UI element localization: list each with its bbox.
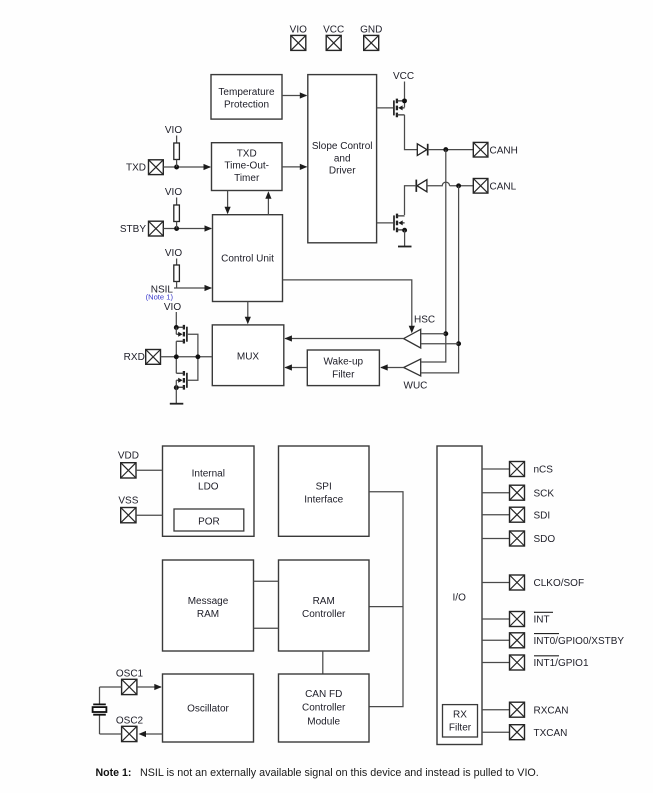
- svg-text:Oscillator: Oscillator: [187, 703, 229, 714]
- pin VDD: [118, 451, 139, 478]
- wire WUC output to Wake-up Filter: [380, 364, 403, 370]
- svg-text:INT: INT: [534, 615, 550, 626]
- wire I/O to pin INT: [482, 618, 510, 620]
- wire D2 to CANL pin (with hop): [427, 182, 473, 188]
- svg-text:CAN FD: CAN FD: [305, 689, 342, 700]
- wire Wake-up Filter to MUX: [284, 364, 307, 370]
- block Wake-up Filter: [307, 350, 379, 386]
- svg-text:Internal: Internal: [192, 468, 225, 479]
- svg-text:WUC: WUC: [404, 381, 428, 392]
- wire VSS to LDO: [136, 514, 163, 516]
- resistor VIO pull-up on TXD: [165, 125, 182, 167]
- pin GND (top supply): [360, 24, 382, 50]
- wire TXD to timer: [163, 164, 211, 170]
- svg-text:Interface: Interface: [304, 495, 343, 506]
- pin VCC (top supply): [323, 24, 344, 50]
- wire STBY to Control Unit: [163, 225, 212, 231]
- pin nCS: [510, 462, 554, 477]
- wire I/O to pin SCK: [482, 492, 510, 494]
- wire CANL node down to comparators: [421, 186, 461, 373]
- block Message RAM: [163, 560, 254, 651]
- wire TXD Time-Out-Timer to Slope Control: [282, 164, 307, 170]
- wire Slope Control to NMOS gate: [377, 222, 394, 224]
- svg-text:Controller: Controller: [302, 609, 346, 620]
- wire D1 to CANH pin: [428, 147, 474, 152]
- block RAM Controller: [279, 560, 370, 651]
- svg-text:STBY: STBY: [120, 224, 146, 235]
- pin RXCAN: [510, 702, 569, 717]
- pin OSC2: [116, 715, 144, 741]
- svg-text:Protection: Protection: [224, 100, 269, 111]
- block Temperature Protection: [211, 75, 282, 120]
- wire Slope Control to PMOS gate: [377, 107, 394, 109]
- svg-text:INT1/GPIO1: INT1/GPIO1: [534, 658, 589, 669]
- block Oscillator: [163, 674, 254, 742]
- wire I/O to pin RXCAN: [482, 709, 510, 711]
- wire inverter NMOS connections: [176, 357, 198, 388]
- resistor VIO pull-up on STBY: [165, 187, 182, 229]
- wire I/O to pin INT0-GPIO0-XSTBY: [482, 639, 510, 641]
- transistor low-side NMOS driver: [394, 214, 407, 233]
- pin SCK: [510, 485, 555, 500]
- wire NSIL to Control Unit: [174, 285, 212, 291]
- pin INT1-GPIO1: [510, 655, 589, 670]
- wire I/O to pin TXCAN: [482, 731, 510, 733]
- svg-text:SDI: SDI: [534, 510, 551, 521]
- crystal Y1: [93, 687, 107, 734]
- svg-text:NSIL is not an externally avai: NSIL is not an externally available sign…: [140, 767, 539, 779]
- svg-text:HSC: HSC: [414, 315, 435, 326]
- svg-text:Wake-up: Wake-up: [323, 356, 363, 367]
- note 1 text: [96, 767, 539, 779]
- wire Control Unit up to TXD Time-Out-Timer: [265, 191, 271, 215]
- wire I/O to pin SDO: [482, 538, 510, 540]
- wire Temperature Protection to Slope Control: [282, 92, 307, 98]
- pin SDO: [510, 531, 556, 546]
- pin SDI: [510, 507, 551, 522]
- svg-text:GND: GND: [360, 24, 382, 35]
- diode D2 from CANL: [416, 180, 427, 192]
- diode D1 to CANH: [417, 144, 427, 156]
- block MUX: [212, 325, 283, 386]
- wire Message RAM to RAM Controller (upper): [254, 580, 279, 582]
- svg-text:POR: POR: [198, 516, 220, 527]
- svg-text:RX: RX: [453, 710, 467, 721]
- pin OSC1: [116, 668, 144, 694]
- svg-text:nCS: nCS: [534, 465, 554, 476]
- wire HSC output to MUX: [284, 335, 403, 341]
- svg-text:VCC: VCC: [393, 71, 414, 82]
- svg-text:Filter: Filter: [449, 723, 472, 734]
- pin CANH: [473, 142, 518, 157]
- svg-text:TXD: TXD: [237, 149, 257, 160]
- svg-text:Timer: Timer: [234, 173, 260, 184]
- transistor inverter PMOS: [174, 325, 187, 344]
- pin TXD: [126, 160, 163, 175]
- wire crystal to OSC pins: [100, 687, 122, 734]
- block Slope Control and Driver: [308, 75, 377, 243]
- svg-text:VDD: VDD: [118, 451, 139, 462]
- svg-text:VIO: VIO: [290, 24, 307, 35]
- wire I/O to pin CLKO-SOF: [482, 582, 510, 584]
- comparator HSC: [404, 315, 436, 348]
- pin CLKO-SOF: [510, 575, 585, 590]
- wire OSC1 to Oscillator: [137, 684, 162, 690]
- svg-text:VIO: VIO: [165, 248, 182, 259]
- wire Message RAM to RAM Controller (lower): [254, 627, 279, 629]
- svg-text:CLKO/SOF: CLKO/SOF: [534, 578, 585, 589]
- svg-text:RAM: RAM: [313, 596, 335, 607]
- wire TXD Time-Out-Timer down to Control Unit: [225, 191, 231, 215]
- svg-text:Message: Message: [188, 596, 229, 607]
- wire RXD to MUX: [161, 354, 213, 359]
- svg-text:OSC1: OSC1: [116, 668, 144, 679]
- wire D2 to NMOS drain: [405, 186, 417, 215]
- svg-text:CANL: CANL: [490, 181, 517, 192]
- block Control Unit: [213, 215, 283, 302]
- pin TXCAN: [510, 725, 568, 740]
- svg-text:CANH: CANH: [490, 145, 518, 156]
- wire SPI bus to RAM Controller and CAN FD: [369, 492, 403, 707]
- svg-text:RAM: RAM: [197, 609, 219, 620]
- block SPI Interface: [279, 446, 370, 536]
- svg-text:(Note 1): (Note 1): [146, 293, 174, 302]
- block TXD Time-Out-Timer: [212, 143, 283, 191]
- svg-text:SDO: SDO: [534, 534, 556, 545]
- pin VIO (top supply): [290, 24, 307, 50]
- pin RXD: [124, 350, 161, 365]
- block CAN FD Controller Module: [279, 674, 370, 742]
- block Internal LDO: [163, 446, 255, 536]
- svg-text:SCK: SCK: [534, 488, 555, 499]
- wire I/O to pin SDI: [482, 514, 510, 516]
- wire VDD to LDO: [136, 469, 163, 471]
- pin INT0-GPIO0-XSTBY: [510, 633, 625, 648]
- wire Control Unit to HSC comparator: [283, 280, 415, 333]
- wire I/O to pin INT1-GPIO1: [482, 662, 510, 664]
- wire RAM Controller to CAN FD module: [322, 651, 324, 674]
- svg-text:VSS: VSS: [118, 496, 138, 507]
- wire inverter PMOS connections: [176, 327, 198, 357]
- pin STBY: [120, 221, 163, 236]
- svg-text:Module: Module: [307, 716, 340, 727]
- svg-text:Driver: Driver: [329, 166, 356, 177]
- block POR: [174, 509, 244, 531]
- svg-text:VIO: VIO: [165, 125, 182, 136]
- svg-text:RXD: RXD: [124, 352, 145, 363]
- svg-text:TXCAN: TXCAN: [534, 728, 568, 739]
- ground (inverter): [170, 387, 184, 403]
- wire I/O to pin nCS: [482, 468, 510, 470]
- wire PMOS source to diode D1: [405, 115, 418, 150]
- svg-text:OSC2: OSC2: [116, 715, 144, 726]
- svg-text:VIO: VIO: [164, 302, 181, 313]
- svg-text:and: and: [334, 153, 351, 164]
- svg-text:Slope Control: Slope Control: [312, 141, 373, 152]
- svg-text:Note 1:: Note 1:: [96, 767, 132, 779]
- svg-text:MUX: MUX: [237, 351, 260, 362]
- pin INT: [510, 612, 554, 627]
- pin VSS: [118, 496, 138, 523]
- comparator WUC: [404, 359, 428, 392]
- transistor inverter NMOS: [174, 371, 187, 390]
- svg-text:Control Unit: Control Unit: [221, 254, 274, 265]
- svg-text:LDO: LDO: [198, 481, 219, 492]
- wire CANH node down to comparators: [421, 150, 448, 362]
- wire Control Unit to MUX: [245, 302, 251, 325]
- wire Oscillator to OSC2: [139, 731, 163, 737]
- svg-text:VCC: VCC: [323, 24, 344, 35]
- svg-text:Temperature: Temperature: [218, 87, 275, 98]
- block RX Filter: [443, 705, 478, 737]
- svg-text:TXD: TXD: [126, 162, 146, 173]
- svg-text:VIO: VIO: [165, 187, 182, 198]
- block I/O: [437, 446, 482, 745]
- svg-text:Time-Out-: Time-Out-: [224, 161, 269, 172]
- ground (driver source): [398, 230, 412, 246]
- pin CANL: [473, 179, 516, 194]
- svg-text:Controller: Controller: [302, 703, 346, 714]
- svg-text:SPI: SPI: [316, 482, 332, 493]
- svg-text:RXCAN: RXCAN: [534, 705, 569, 716]
- node NSIL: [146, 285, 174, 302]
- svg-text:INT0/GPIO0/XSTBY: INT0/GPIO0/XSTBY: [534, 636, 625, 647]
- node VIO above RXD inverter: [164, 302, 181, 327]
- svg-text:Filter: Filter: [332, 370, 355, 381]
- transistor high-side PMOS driver: [394, 98, 407, 117]
- resistor VIO pull-up on NSIL: [165, 248, 182, 288]
- wire HSC inputs: [421, 334, 458, 344]
- node VCC (driver supply): [393, 71, 414, 107]
- svg-text:I/O: I/O: [453, 592, 467, 603]
